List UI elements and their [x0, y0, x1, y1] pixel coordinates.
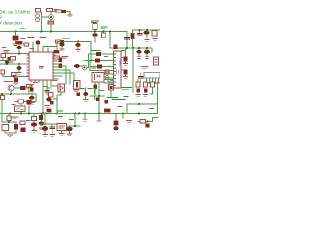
diode D26	[61, 40, 64, 43]
resistor R17	[18, 100, 24, 103]
label speck	[21, 38, 25, 40]
junction	[18, 53, 20, 55]
ground	[137, 57, 149, 59]
diode D1	[13, 36, 19, 41]
diode D22	[21, 128, 26, 133]
diode D18	[105, 100, 109, 104]
capacitor C25 polarized	[83, 92, 88, 96]
wire	[121, 70, 126, 76]
svg-text:X detection: X detection	[0, 20, 22, 25]
label	[97, 120, 101, 122]
label	[141, 67, 148, 69]
junction	[28, 113, 30, 115]
junction	[74, 125, 76, 127]
wire	[122, 114, 124, 119]
net label	[92, 50, 100, 52]
capacitor C16 polarized	[29, 96, 35, 100]
regulator IC6	[57, 124, 67, 131]
junction	[77, 41, 79, 43]
wire right top rail	[133, 29, 161, 31]
label GND	[53, 79, 58, 81]
label speck	[54, 98, 57, 100]
diode D23	[39, 115, 43, 120]
wire	[2, 74, 4, 77]
capacitor C17	[45, 91, 49, 93]
wire	[146, 30, 148, 31]
resistor R21	[96, 97, 99, 101]
junction	[50, 31, 52, 33]
ground	[68, 15, 72, 17]
wire vertical feed	[90, 42, 92, 62]
label	[74, 90, 79, 92]
capacitor C6 polarized	[59, 43, 64, 47]
regulator IC4	[2, 125, 9, 131]
circle node	[105, 76, 109, 80]
wire	[21, 103, 29, 113]
net label	[62, 38, 70, 40]
wire top right corner	[126, 32, 128, 49]
label speck	[105, 56, 108, 58]
ground	[136, 95, 148, 97]
wire long horizontal	[110, 47, 152, 49]
ground	[14, 44, 18, 46]
wire	[139, 54, 147, 56]
capacitor C15	[139, 77, 144, 79]
wire	[33, 127, 35, 130]
wire	[95, 88, 97, 99]
capacitor C23 polarized	[67, 127, 73, 132]
wire	[103, 32, 105, 34]
junction	[56, 113, 58, 115]
junction	[90, 60, 92, 62]
diode D13	[144, 89, 148, 93]
diode D21	[14, 124, 18, 130]
junction	[139, 29, 141, 31]
wire	[121, 58, 126, 64]
ground	[17, 73, 21, 75]
wire row to U2 pin	[89, 53, 114, 55]
wire	[139, 48, 147, 50]
oscillator Q1	[49, 15, 54, 20]
capacitor C13 polarized	[136, 50, 141, 54]
resistor R23	[7, 116, 11, 121]
wire	[18, 44, 20, 46]
resistor R32	[47, 109, 52, 113]
wire	[85, 88, 87, 92]
net label	[92, 21, 99, 23]
wire	[140, 73, 142, 82]
capacitor C4	[137, 34, 142, 36]
switch S1	[15, 106, 26, 112]
wire	[55, 67, 74, 84]
capacitor C1	[92, 33, 97, 37]
junction	[6, 63, 8, 65]
junction	[74, 113, 76, 115]
label speck	[92, 67, 96, 69]
junction	[138, 113, 140, 115]
wire	[15, 32, 17, 44]
junction	[13, 76, 15, 78]
label speck	[70, 119, 74, 121]
wire	[61, 47, 63, 49]
resistor R19	[105, 70, 109, 74]
junction	[132, 47, 134, 49]
resistor R28	[102, 33, 106, 38]
wire	[80, 54, 89, 68]
opto IC3	[92, 73, 104, 83]
label	[83, 120, 87, 122]
resistor R4	[56, 10, 62, 13]
junction	[103, 31, 105, 33]
wire bus 2	[57, 41, 91, 43]
net label speck	[58, 110, 63, 112]
microphone MIC1	[82, 65, 87, 70]
ground	[32, 131, 37, 133]
wire main top bus	[0, 31, 127, 33]
capacitor C18 polarized	[46, 97, 52, 101]
junction	[126, 47, 128, 49]
wire	[0, 92, 36, 122]
wire	[42, 12, 49, 32]
resistor R29 on bus2	[56, 40, 61, 43]
junction	[9, 113, 11, 115]
ground	[14, 83, 18, 85]
label speck	[150, 108, 154, 110]
resistor R10	[11, 57, 16, 61]
wire	[18, 64, 20, 72]
wire IC left pin row 64	[0, 63, 29, 65]
wire feed to IC2	[109, 32, 111, 49]
junction	[41, 31, 43, 33]
transistor Q2	[8, 85, 14, 91]
label RX	[30, 85, 34, 87]
capacitor C21 polarized	[42, 126, 48, 131]
net label	[122, 88, 132, 90]
resistor R25	[32, 117, 37, 121]
wire row 3 to U2	[90, 66, 114, 68]
junction	[138, 103, 140, 105]
label speck	[3, 47, 7, 49]
wire	[55, 58, 59, 61]
wire	[2, 114, 16, 123]
label	[127, 121, 132, 123]
wire upper IC verticals	[33, 42, 57, 52]
resistor R24	[20, 121, 25, 125]
resistor R5	[93, 24, 97, 30]
wire	[138, 118, 158, 122]
wire	[53, 11, 71, 14]
box right edge	[154, 57, 159, 65]
wire	[21, 104, 127, 114]
wire	[151, 48, 153, 52]
net label right	[101, 27, 107, 29]
resistor R16	[27, 85, 32, 88]
resistor R8	[16, 41, 22, 44]
diode D8	[95, 59, 100, 63]
ground	[124, 77, 128, 79]
fill mark	[110, 86, 113, 89]
capacitor C14 polarized	[144, 50, 150, 54]
ground	[124, 64, 128, 66]
inverter IC2	[114, 51, 123, 88]
ground	[60, 49, 64, 51]
regulator IC5	[152, 31, 157, 37]
wire	[62, 114, 81, 134]
diode D14	[20, 86, 26, 90]
junction	[78, 113, 80, 115]
net label speck	[124, 96, 128, 98]
label speck	[59, 116, 63, 118]
wire	[150, 82, 158, 104]
wire	[94, 37, 96, 42]
wire	[56, 42, 58, 52]
diode D25	[114, 45, 118, 50]
diode D20	[93, 85, 97, 90]
diode D15	[27, 100, 32, 105]
capacitor C12 polarized	[74, 64, 80, 68]
resistor R15	[151, 82, 155, 87]
wire	[31, 92, 33, 97]
resistor R11	[1, 70, 5, 74]
net label	[28, 37, 46, 39]
wire	[133, 30, 140, 48]
junction	[138, 47, 140, 49]
wire	[0, 58, 11, 61]
resistor R27	[140, 120, 146, 124]
junction	[122, 113, 124, 115]
junction	[1, 93, 3, 95]
ground	[8, 135, 13, 137]
wire	[69, 131, 71, 133]
wire	[90, 61, 114, 71]
pin number text	[111, 81, 114, 83]
label speck	[122, 50, 126, 52]
junction	[94, 31, 96, 33]
capacitor C2	[125, 38, 130, 40]
junction	[98, 95, 100, 97]
label speck	[100, 90, 104, 92]
diode D17	[50, 101, 54, 105]
capacitor C22	[50, 127, 55, 129]
wire	[55, 64, 66, 84]
ground	[40, 128, 44, 130]
capacitor C7 polarized	[75, 43, 80, 47]
junction	[84, 113, 86, 115]
diode D4	[14, 78, 18, 83]
label speck	[118, 106, 122, 108]
resistor R22	[104, 109, 110, 113]
ground	[67, 134, 72, 136]
diode D12	[137, 89, 141, 93]
svg-text:OK, as 3.5MHz: OK, as 3.5MHz	[0, 9, 31, 14]
resistor R2	[47, 9, 53, 12]
ground	[43, 135, 55, 137]
wire	[125, 48, 127, 57]
wire	[90, 96, 104, 114]
wire	[137, 80, 139, 83]
capacitor C11	[5, 60, 9, 63]
junction	[146, 47, 148, 49]
wire	[50, 12, 52, 32]
diode D9	[97, 65, 102, 69]
wire	[5, 49, 29, 53]
junction	[146, 29, 148, 31]
junction	[109, 31, 111, 33]
wire RX row	[15, 94, 36, 102]
net label	[80, 88, 92, 90]
resistor R9	[24, 43, 29, 46]
label speck	[12, 104, 15, 106]
resistor R26	[114, 121, 119, 126]
resistor R14	[144, 82, 148, 87]
wire IC bottom drops	[43, 82, 58, 114]
wire	[115, 114, 117, 127]
LED LED1	[1, 54, 6, 58]
label speck	[27, 120, 31, 122]
diode D2	[62, 10, 66, 13]
wire loop	[104, 80, 114, 84]
wire	[146, 35, 148, 38]
capacitor C9	[17, 46, 22, 50]
capacitor C10	[17, 66, 22, 70]
label	[62, 57, 68, 59]
wire	[45, 129, 52, 134]
resistor R6	[54, 50, 60, 53]
wire	[94, 30, 96, 34]
diode D27	[77, 93, 81, 97]
svg-text:g: g	[0, 14, 2, 19]
wire	[95, 82, 99, 96]
junction	[20, 113, 22, 115]
resistor R31	[1, 96, 5, 100]
net label	[107, 98, 125, 100]
junction	[41, 113, 43, 115]
diode D16	[30, 88, 34, 92]
ground	[84, 100, 88, 102]
resistor R13	[136, 82, 140, 87]
label speck	[34, 82, 38, 84]
net label speck	[20, 28, 25, 30]
junction on top bus	[15, 31, 17, 33]
diode D7	[96, 52, 101, 56]
capacitor C24 polarized	[113, 126, 118, 130]
wire	[110, 90, 112, 97]
diode D5	[59, 58, 63, 63]
wire	[33, 114, 35, 123]
resistor R1	[36, 9, 41, 13]
stub net 1	[84, 114, 86, 120]
resistor R12	[12, 73, 17, 76]
junction	[98, 113, 100, 115]
ground	[145, 39, 157, 42]
capacitor C5 polarized	[143, 31, 149, 35]
transistor Q3 box	[58, 84, 65, 92]
resistor R20	[109, 85, 114, 91]
label	[12, 117, 18, 119]
label speck	[44, 86, 48, 88]
label speck	[30, 48, 34, 50]
wire	[57, 92, 61, 114]
wire row 2 to U2	[84, 60, 114, 62]
ground	[45, 106, 49, 108]
capacitor C19 polarized	[31, 122, 37, 126]
wire	[77, 47, 79, 49]
diode D6	[59, 64, 63, 69]
ground	[60, 134, 65, 136]
stub net 2	[98, 114, 100, 121]
wire	[85, 96, 87, 99]
ground	[30, 103, 34, 105]
resistor R3	[48, 21, 54, 24]
diode D3	[8, 57, 12, 61]
wire	[47, 88, 51, 95]
resistor R30	[131, 33, 135, 39]
junction	[147, 121, 149, 123]
diode D24	[146, 124, 150, 128]
capacitor C20 polarized	[39, 121, 45, 125]
power section wire	[40, 114, 57, 127]
junction	[61, 41, 63, 43]
resistor R7	[54, 56, 60, 59]
junction	[8, 121, 10, 123]
wire right horizontal	[127, 104, 158, 114]
svg-text:74HC: 74HC	[118, 58, 122, 67]
junction	[10, 93, 12, 95]
resistor R18	[49, 93, 54, 98]
ground	[76, 50, 80, 52]
wire bottom bus	[0, 113, 158, 115]
wire	[41, 114, 43, 122]
diode D10	[124, 57, 128, 62]
transformer T1	[36, 14, 40, 22]
wire	[15, 86, 29, 94]
diode D11	[124, 70, 128, 75]
capacitor C8	[36, 40, 41, 44]
label	[4, 81, 13, 83]
junction	[42, 113, 44, 115]
wire stub rows	[106, 74, 114, 86]
crystal X1	[74, 81, 81, 90]
label LED	[4, 51, 9, 53]
net label	[8, 61, 13, 63]
connector SV1	[144, 73, 160, 84]
wire long vertical right	[132, 48, 134, 92]
junction	[44, 113, 46, 115]
junction	[18, 63, 20, 65]
label R2	[54, 10, 58, 12]
op-amp IC1 main	[27, 50, 55, 82]
wire IC left pin row 76	[3, 76, 29, 78]
wire	[5, 122, 16, 133]
